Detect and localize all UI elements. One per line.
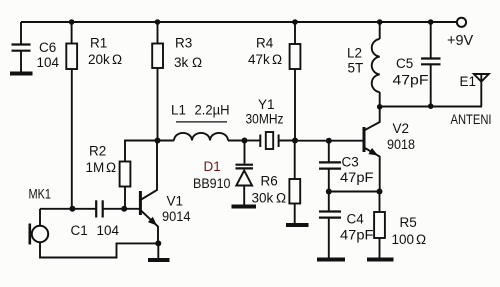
node base / R1: [69, 206, 75, 212]
node Y1 / R4 / R6: [292, 138, 298, 144]
wire R1 bottom to base line: [71, 69, 73, 209]
terminal +9V: [447, 18, 474, 49]
microphone MK1: [29, 187, 52, 245]
svg-text:V1: V1: [167, 194, 184, 209]
wire base line: [40, 208, 96, 210]
resistor R5: [374, 192, 426, 258]
resistor R1: [66, 22, 122, 69]
node tank bottom / L2: [377, 104, 383, 110]
svg-text:R5: R5: [400, 215, 417, 230]
svg-text:V2: V2: [393, 121, 410, 136]
svg-text:9014: 9014: [162, 209, 191, 224]
svg-text:L1: L1: [171, 103, 186, 118]
svg-text:R2: R2: [89, 144, 106, 159]
svg-text:Y1: Y1: [258, 97, 275, 112]
ground (V1 emitter): [148, 258, 170, 262]
wire emitter node line: [329, 191, 380, 193]
svg-text:30MHz: 30MHz: [246, 112, 284, 127]
svg-text:E1: E1: [460, 74, 477, 89]
svg-text:5T: 5T: [348, 61, 364, 76]
node tank bottom / C5: [428, 103, 434, 109]
svg-text:+9V: +9V: [447, 33, 474, 49]
svg-text:C6: C6: [39, 40, 56, 55]
node top rail / C5: [428, 19, 434, 25]
wire emitter to ground: [157, 243, 159, 258]
node top rail / R4: [292, 19, 298, 25]
capacitor C1: [71, 200, 141, 238]
varactor diode D1: [193, 141, 253, 205]
ground (C6): [10, 72, 33, 76]
node top rail / L2: [377, 19, 383, 25]
svg-text:1M: 1M: [86, 160, 105, 175]
crystal Y1: [245, 97, 296, 149]
svg-text:ANTENI: ANTENI: [451, 111, 492, 127]
svg-text:2.2µH: 2.2µH: [195, 103, 230, 118]
svg-text:104: 104: [97, 223, 120, 238]
node V2 base / C3: [326, 138, 332, 144]
node emitter V1 / ground: [155, 240, 161, 246]
svg-text:R4: R4: [256, 36, 274, 51]
svg-text:C1: C1: [71, 223, 88, 238]
node base / R2: [121, 206, 127, 212]
node L1 / D1 / Y1: [242, 138, 248, 144]
ground (D1): [232, 205, 257, 209]
svg-text:47pF: 47pF: [340, 170, 374, 185]
svg-text:R1: R1: [90, 36, 107, 51]
svg-text:20k: 20k: [88, 52, 110, 67]
wire collector line (V1 node to L1): [158, 140, 175, 142]
svg-text:Ω: Ω: [112, 52, 122, 67]
svg-text:47pF: 47pF: [393, 73, 429, 88]
wire R3 bottom to collector node: [157, 68, 159, 141]
wire MK1 return to emitter ground: [40, 242, 159, 257]
resistor R6: [252, 141, 301, 224]
svg-text:C3: C3: [342, 155, 359, 170]
node emitter / R5: [377, 189, 383, 195]
svg-text:Ω: Ω: [416, 232, 426, 247]
svg-text:C4: C4: [347, 212, 365, 227]
transistor V1: [140, 141, 191, 244]
svg-text:3k: 3k: [174, 55, 189, 70]
svg-text:C5: C5: [396, 56, 413, 71]
wire top supply rail: [21, 21, 457, 23]
inductor L2: [347, 22, 380, 107]
node top rail / R1: [69, 19, 75, 25]
wire Y1 node to C3 node to V2 base: [295, 140, 364, 142]
node collector / R3 / L1: [155, 138, 161, 144]
ground (R6): [286, 223, 309, 227]
svg-text:Ω: Ω: [272, 52, 282, 67]
capacitor C3: [319, 141, 374, 192]
capacitor C6: [12, 22, 60, 72]
node C3/C4: [326, 189, 332, 195]
svg-text:R6: R6: [261, 174, 278, 189]
node top rail / R3: [155, 19, 161, 25]
svg-text:Ω: Ω: [192, 55, 202, 70]
svg-text:47pF: 47pF: [340, 228, 374, 243]
svg-text:Ω: Ω: [276, 191, 286, 206]
svg-text:D1: D1: [204, 159, 221, 174]
transistor V2: [364, 107, 415, 192]
wire tank bottom to antenna: [380, 106, 482, 108]
wire R4 bottom to crystal node: [294, 69, 296, 141]
svg-text:MK1: MK1: [29, 187, 52, 202]
antenna E1: [451, 74, 492, 127]
ground (R5): [367, 258, 394, 262]
resistor R3: [152, 22, 202, 70]
svg-text:BB910: BB910: [193, 176, 231, 191]
svg-text:Ω: Ω: [106, 160, 116, 175]
svg-text:9018: 9018: [387, 137, 415, 152]
svg-text:100: 100: [392, 232, 415, 247]
svg-text:104: 104: [37, 55, 60, 70]
resistor R4: [248, 22, 300, 69]
capacitor C4: [319, 192, 374, 258]
resistor R2: [86, 141, 158, 209]
svg-text:L2: L2: [347, 46, 362, 61]
svg-text:47k: 47k: [248, 52, 270, 67]
capacitor C5: [393, 22, 441, 106]
svg-text:30k: 30k: [252, 191, 274, 206]
inductor L1: [171, 103, 245, 141]
svg-text:R3: R3: [175, 36, 192, 51]
ground (C4): [317, 258, 345, 262]
